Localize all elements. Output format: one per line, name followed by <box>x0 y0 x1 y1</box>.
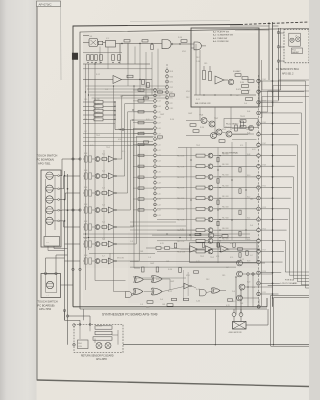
svg-text:C-3: C-3 <box>130 241 133 243</box>
signal row 3 wire <box>157 176 257 177</box>
return line long wire <box>123 344 309 346</box>
wire rows crossing vertical 2 <box>217 148 219 264</box>
svg-text:K-08: K-08 <box>247 154 250 156</box>
touch row 1 buffer <box>107 156 117 162</box>
touch row 2 transistor <box>92 174 100 179</box>
wire SW3 to row 3 <box>60 193 81 200</box>
svg-text:APG-7051: APG-7051 <box>38 162 51 166</box>
output junction circles <box>247 273 255 276</box>
signal row 4 resistor <box>196 186 205 189</box>
wire bus B to frame <box>61 284 74 286</box>
wire board B to bus <box>46 255 68 272</box>
touch switch board A outline <box>41 170 61 247</box>
signal row 10 resistor <box>196 250 205 253</box>
connector strip CN-A pins <box>166 70 169 110</box>
svg-text:K-04: K-04 <box>247 111 250 113</box>
label TOUCH SWITCH PC BOARD(B) APG-7052 <box>38 300 58 312</box>
svg-text:ST2: ST2 <box>170 103 173 105</box>
signal row 3 right label <box>222 175 230 177</box>
op-amp IC-3 <box>215 76 228 84</box>
touch row 3 buffer <box>107 190 117 196</box>
signal row 6 right label <box>222 207 230 209</box>
svg-text:- +: - + <box>47 295 49 297</box>
svg-text:L-2: L-2 <box>236 95 239 97</box>
gate area vertical dashes <box>183 270 188 300</box>
signal row 3 resistor <box>196 175 205 178</box>
frame junction circles row4 <box>72 209 81 211</box>
svg-text:L-2: L-2 <box>226 267 229 269</box>
frame bottom double line <box>73 307 267 309</box>
svg-text:S-07: S-07 <box>157 123 160 125</box>
touch row 6 buffer <box>107 241 117 247</box>
return board resistor row 2 <box>95 331 112 334</box>
transistor TR-10 <box>225 127 232 137</box>
LCD feed wire <box>268 284 309 286</box>
wire NAND to box <box>173 40 191 45</box>
svg-text:IC-2: IC-2 <box>106 38 109 40</box>
frame junction circles row1 <box>72 158 81 160</box>
touch switch board B pads <box>44 272 57 274</box>
svg-text:IC-2: IC-2 <box>102 170 105 172</box>
svg-text:RL-305: RL-305 <box>96 325 102 327</box>
transistor TR-8 <box>216 129 222 135</box>
svg-text:FB-1 10K: FB-1 10K <box>222 153 230 155</box>
signal row 9 right label <box>222 239 230 241</box>
signal row 9 label <box>177 241 185 243</box>
touch row 7 input resistors <box>83 258 92 264</box>
touch row 5 transistor <box>92 225 100 230</box>
signal row 7 bias resistor <box>217 221 219 226</box>
svg-text:R-12: R-12 <box>196 99 200 101</box>
inverter buffer 1 <box>190 246 197 252</box>
touch row 3 coupling capacitor <box>100 191 107 194</box>
FG sensor coil 1 <box>290 38 294 42</box>
svg-text:0.01: 0.01 <box>156 279 160 281</box>
control section box outline <box>191 28 259 107</box>
touch switch SW4 <box>46 207 60 214</box>
output wires right <box>242 263 272 298</box>
svg-text:1S5: 1S5 <box>250 199 253 201</box>
outer frame border <box>73 22 309 307</box>
resistor R-22 vertical <box>209 66 212 81</box>
wires into gate cluster <box>130 262 240 279</box>
touch row 3 input resistors <box>83 190 92 196</box>
inverter chain wires <box>181 248 260 250</box>
connector strip CN-B pin labels <box>157 90 160 217</box>
touch row 6 transistor <box>92 242 100 247</box>
svg-text:R-56: R-56 <box>178 37 182 39</box>
svg-text:PB-5 1.5K: PB-5 1.5K <box>177 198 185 200</box>
return board corner junction <box>73 324 76 346</box>
touch row 4 riser wire <box>117 120 154 210</box>
resistor RA-3 <box>83 107 116 112</box>
svg-text:CK1: CK1 <box>170 82 173 84</box>
gate inside box <box>191 42 206 50</box>
signal row 8 label <box>177 230 185 232</box>
resistors at cluster <box>190 121 243 142</box>
label RETURN SENSOR PC BOARD <box>81 355 114 362</box>
svg-text:VR-1: VR-1 <box>214 289 218 291</box>
svg-text:PB-3 1.5K: PB-3 1.5K <box>177 177 185 179</box>
wire harness lower <box>83 134 153 146</box>
signal row 5 bias resistor <box>217 200 219 205</box>
svg-text:RS-1: RS-1 <box>78 343 82 345</box>
signal row 10 transistor <box>208 249 213 254</box>
resistor RA-2 <box>83 102 116 107</box>
XOR gate G3 <box>151 275 162 282</box>
touch row 3 riser wire <box>117 112 154 193</box>
wire rows crossing vertical 3 <box>231 142 233 240</box>
svg-text:PB-2 1.5K: PB-2 1.5K <box>177 166 185 168</box>
AND gate G9 <box>200 290 207 296</box>
svg-text:COIL: COIL <box>78 346 82 348</box>
svg-text:AP-070/C: AP-070/C <box>39 2 53 6</box>
svg-text:FB-5 10K: FB-5 10K <box>222 196 230 198</box>
svg-text:S-24: S-24 <box>157 215 160 217</box>
signal row 6 resistor <box>196 207 205 210</box>
signal row 10 label <box>177 251 186 253</box>
touch row 4 coupling capacitor <box>100 208 107 211</box>
signal row 4 transistor <box>208 185 213 190</box>
touch board A internal bus <box>46 176 56 237</box>
wire box to NAND parts <box>116 40 163 45</box>
wires down to frame bottom <box>236 275 259 314</box>
wire op-amp to mid box <box>140 79 152 81</box>
FG wires down <box>262 81 281 90</box>
sheet bottom edge <box>37 380 309 387</box>
svg-text:S-12: S-12 <box>157 150 160 152</box>
motor junction circle 2 <box>239 309 243 316</box>
svg-text:PC BOARD(A): PC BOARD(A) <box>37 158 55 162</box>
svg-text:R-56: R-56 <box>200 127 204 129</box>
svg-text:0.01: 0.01 <box>230 243 234 245</box>
svg-text:VR-1: VR-1 <box>186 91 190 93</box>
signal row 7 wire <box>157 219 257 220</box>
XOR gate G2 <box>134 276 144 282</box>
signal row 2 transistor <box>208 164 213 169</box>
signal row 3 bias resistor <box>217 179 219 184</box>
touch row 7 labels <box>84 255 105 257</box>
svg-text:S-10: S-10 <box>157 139 160 141</box>
signal row 5 right label <box>222 196 230 198</box>
wire row 6 feed <box>65 243 81 245</box>
touch row 1 riser wire <box>117 95 154 159</box>
motor junction circle 1 <box>232 309 236 316</box>
svg-text:TOUCH SWITCH: TOUCH SWITCH <box>38 300 58 304</box>
touch switch board B outline <box>41 274 61 298</box>
signal row 1 wire <box>157 155 257 156</box>
svg-text:S-19: S-19 <box>157 188 160 190</box>
caps at op-amp A2 output <box>127 75 149 87</box>
touch row 6 coupling capacitor <box>100 242 107 245</box>
svg-text:ST1: ST1 <box>170 98 173 100</box>
connector strip CN-B feed wires <box>133 89 154 211</box>
svg-text:FB-2 10K: FB-2 10K <box>222 164 230 166</box>
svg-text:D-4: D-4 <box>244 103 247 105</box>
wire SW1 to row 1 <box>60 159 81 176</box>
signal row 7 label <box>177 220 185 222</box>
svg-text:R-56: R-56 <box>168 269 172 271</box>
svg-text:PB-4 1.5K: PB-4 1.5K <box>177 188 185 190</box>
rows section divider wire <box>178 148 258 241</box>
touch row 1 transistor <box>92 157 100 162</box>
svg-text:S-02: S-02 <box>157 95 160 97</box>
transistor TR-7 <box>209 118 218 127</box>
signal row 2 bias resistor <box>239 168 241 173</box>
touch row 1 coupling capacitor <box>100 157 107 160</box>
touch row 3 labels <box>84 187 105 189</box>
svg-text:FB-12 SERVO: FB-12 SERVO <box>226 124 239 126</box>
wire extra harness above rows <box>130 222 196 230</box>
svg-text:LCD P.C BOARD: LCD P.C BOARD <box>281 282 298 285</box>
signal row 2 resistor <box>196 165 205 168</box>
connector strip CN-C dashed line <box>258 75 260 306</box>
svg-text:PB-10 1.5K: PB-10 1.5K <box>177 251 186 253</box>
connector strip CN-A pin labels <box>170 71 174 110</box>
signal row 1 transistor <box>208 153 213 158</box>
svg-text:CK2: CK2 <box>170 87 173 89</box>
touch row 5 buffer <box>107 224 117 230</box>
connector strip CN-B pins <box>154 89 157 217</box>
svg-text:K-18: K-18 <box>247 260 250 262</box>
svg-text:C-3: C-3 <box>148 257 151 259</box>
svg-text:D-4: D-4 <box>160 299 163 301</box>
inverter buffer 2 <box>205 246 212 252</box>
svg-text:1S5: 1S5 <box>146 307 149 309</box>
misc component labels texture <box>84 37 256 309</box>
touch switch SW2 <box>46 185 60 192</box>
svg-text:SYNTHESIZER PC BOARD APG: SYNTHESIZER PC BOARD APG-7049 <box>102 313 158 317</box>
signal row 6 transistor <box>208 206 213 211</box>
wire rows crossing vertical 1 <box>190 148 192 241</box>
FG bus rings <box>277 31 280 62</box>
motor M1 box <box>233 322 247 330</box>
svg-text:TR-6: TR-6 <box>199 115 203 117</box>
legend text block <box>213 31 233 44</box>
top right feed wires <box>230 26 269 30</box>
FG sensor board dashed outline <box>284 29 309 63</box>
IC buffer box <box>106 38 116 47</box>
touch row 4 labels <box>84 204 105 206</box>
AND gate G6 <box>126 292 134 298</box>
svg-text:TR-2: TR-2 <box>196 145 200 147</box>
signal row 4 wire <box>157 187 257 188</box>
wire SW6 to row 7 <box>65 260 81 262</box>
touch switch SW1 <box>46 172 60 179</box>
svg-text:K-06: K-06 <box>247 132 250 134</box>
svg-text:C-3: C-3 <box>105 89 108 91</box>
output transistor T2 <box>237 271 243 277</box>
inverter chain box <box>190 243 258 262</box>
junction dots texture <box>85 63 274 345</box>
right nested corner wire 2 <box>274 298 310 345</box>
svg-text:FB-4 10K: FB-4 10K <box>222 185 230 187</box>
sheet left edge <box>36 6 38 381</box>
svg-text:IC-6: IC-6 <box>102 238 105 240</box>
svg-text:R-56: R-56 <box>196 289 200 291</box>
right nested corner wire 1 <box>271 295 309 346</box>
touch row 3 transistor <box>92 191 100 196</box>
sub box label FB-12 <box>224 119 258 128</box>
svg-text:IC-7: IC-7 <box>102 255 105 257</box>
svg-text:R-47K: R-47K <box>236 89 242 91</box>
signal row 1 bias resistor <box>217 157 219 162</box>
return board relay box <box>78 340 89 349</box>
svg-text:PC BOARD(B): PC BOARD(B) <box>38 303 55 307</box>
svg-text:R-12: R-12 <box>118 129 122 131</box>
svg-text:S-09: S-09 <box>157 133 160 135</box>
wire oscillator drops <box>120 43 135 64</box>
svg-text:S-23: S-23 <box>157 210 160 212</box>
svg-text:MA-1 DRIVE CIR: MA-1 DRIVE CIR <box>195 102 211 105</box>
svg-text:VR-1: VR-1 <box>222 129 226 131</box>
signal row 4 right label <box>222 185 230 187</box>
svg-text:FB-9 10K: FB-9 10K <box>222 239 230 241</box>
svg-text:0.01: 0.01 <box>252 149 256 151</box>
svg-text:FG-1: FG-1 <box>292 49 296 51</box>
touch row 4 transistor <box>92 208 100 213</box>
signal row 2 label <box>177 166 185 168</box>
svg-text:C-3: C-3 <box>140 304 143 306</box>
return sensor lamp 2 <box>105 343 111 349</box>
gate cluster wires <box>133 279 212 295</box>
wire to NAND <box>151 43 154 50</box>
touch row 5 riser wire <box>117 128 154 227</box>
title box AP-070/C <box>37 1 61 7</box>
signal row 3 label <box>177 177 185 179</box>
wire SW4 to row 4 <box>60 209 81 211</box>
paper crease line <box>60 6 63 80</box>
signal row 4 bias resistor <box>239 189 241 194</box>
svg-text:TR-2: TR-2 <box>106 147 110 149</box>
touch row 1 input resistors <box>83 156 92 162</box>
signal row 2 wire <box>157 166 257 167</box>
signal row 5 label <box>177 198 185 200</box>
svg-text:S-03: S-03 <box>157 101 160 103</box>
touch row 2 buffer <box>107 173 117 179</box>
inverter chain caps <box>202 243 248 256</box>
touch row 2 labels <box>84 170 105 172</box>
svg-text:0.01: 0.01 <box>146 119 150 121</box>
svg-text:SW COM: SW COM <box>117 258 124 260</box>
wire RA bus vertical <box>83 102 153 131</box>
return board resistor row 3 <box>93 337 112 340</box>
resistors at TR-5 <box>235 74 254 83</box>
connector blob on frame <box>72 53 78 60</box>
signal row 5 resistor <box>196 197 205 200</box>
svg-text:S-14: S-14 <box>157 161 160 163</box>
mid right crossing wires <box>232 129 257 140</box>
svg-text:S-22: S-22 <box>157 204 160 206</box>
touch row 2 coupling capacitor <box>100 174 107 177</box>
touch row 6 riser wire <box>117 136 154 244</box>
svg-text:APG-7052: APG-7052 <box>39 307 52 311</box>
svg-text:RETURN SENSOR PC BOARD: RETURN SENSOR PC BOARD <box>81 355 114 358</box>
svg-text:1S5: 1S5 <box>204 63 207 65</box>
touch row 7 buffer <box>107 258 117 264</box>
touch row 2 riser wire <box>117 104 154 176</box>
svg-text:R-12: R-12 <box>168 291 172 293</box>
signal row 7 transistor <box>208 217 213 222</box>
chain feed parts <box>152 233 228 237</box>
wire box internal drop 1 <box>195 44 197 95</box>
motor wires <box>234 316 241 321</box>
junction circle on bottom line <box>257 305 260 308</box>
svg-text:IC-3: IC-3 <box>102 187 105 189</box>
wire vertical drop x104 <box>103 150 105 240</box>
wire vertical drop x95 <box>95 62 126 281</box>
svg-text:L-2: L-2 <box>250 255 253 257</box>
wire second bus <box>83 68 152 70</box>
signal row 1 right label <box>222 153 230 155</box>
svg-text:APG-301 2: APG-301 2 <box>282 72 294 75</box>
svg-text:FB-7 10K: FB-7 10K <box>222 217 230 219</box>
inverter buffer 3 <box>221 246 228 252</box>
touch switch SW3 <box>46 196 60 203</box>
svg-text:K-20: K-20 <box>247 282 250 284</box>
wire top feed <box>83 36 89 43</box>
label LCD PC BOARD <box>281 279 298 285</box>
label FG SENSOR PC BOARD APG-7012 <box>276 68 299 75</box>
svg-text:IC-4: IC-4 <box>102 204 105 206</box>
svg-text:4-MO MOTOR: 4-MO MOTOR <box>229 332 243 334</box>
connector strip CN-C labels <box>247 79 266 294</box>
return board inner wires <box>80 325 118 345</box>
label TOUCH SWITCH PC BOARD(A) APG-7051 <box>37 154 58 166</box>
svg-text:C-3: C-3 <box>252 287 255 289</box>
touch bus vertical pair <box>65 171 68 345</box>
bus line companion <box>262 22 270 306</box>
chain input parts <box>146 243 181 249</box>
svg-text:TR-2: TR-2 <box>96 135 100 137</box>
svg-text:PB-1 1.5K: PB-1 1.5K <box>177 156 185 158</box>
svg-text:IC-1: IC-1 <box>240 145 243 147</box>
svg-text:K-10: K-10 <box>247 175 250 177</box>
label SYNTHESIZER PC BOARD APG-7049 <box>102 313 158 317</box>
signal row 7 right label <box>222 217 230 219</box>
signal row 6 label <box>177 209 185 211</box>
signal row 9 wire <box>157 240 257 241</box>
touch row 1 labels <box>84 153 105 155</box>
label FB terminal <box>222 152 238 155</box>
wire frame to return board <box>82 309 84 320</box>
wire rows crossing vertical 4 <box>245 142 247 240</box>
svg-text:PB-7 1.5K: PB-7 1.5K <box>177 220 185 222</box>
connector strip CN-B dashed line <box>154 88 156 216</box>
frame junction circles lower <box>72 268 81 270</box>
FG bus pair <box>279 28 281 100</box>
resistor R-21 vertical <box>203 66 206 80</box>
svg-text:K-14: K-14 <box>247 218 250 220</box>
touch row 5 labels <box>84 221 105 223</box>
svg-text:APG-3055: APG-3055 <box>96 358 107 361</box>
svg-text:R-12: R-12 <box>134 261 138 263</box>
box component labels <box>196 61 242 91</box>
resistor RA-5 <box>83 116 116 121</box>
wire top margin <box>130 21 230 22</box>
FG board wires to bus <box>273 26 285 61</box>
wire vertical bus left column A <box>85 64 87 290</box>
wire vertical drop x113 <box>114 86 126 292</box>
signal row 8 wire <box>157 230 257 231</box>
label MA-1 drive <box>195 102 211 105</box>
svg-text:S-11: S-11 <box>157 144 160 146</box>
left scanner margin shade <box>0 0 37 400</box>
svg-text:0.01: 0.01 <box>90 145 94 147</box>
small parts mid right <box>240 116 254 131</box>
svg-text:S-16: S-16 <box>157 172 160 174</box>
wire vertical bus left column B <box>88 64 90 250</box>
